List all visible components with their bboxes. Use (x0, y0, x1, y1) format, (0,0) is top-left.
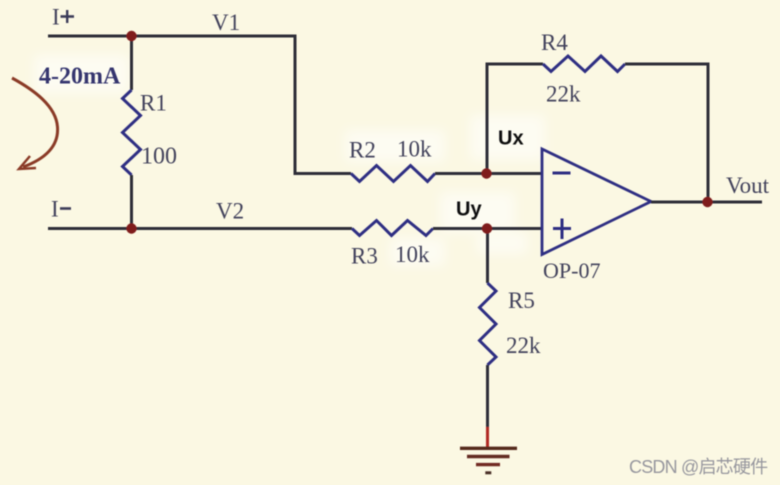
resistor R2 zigzag (351, 166, 435, 182)
node Ux vertical wire up to R4 (486, 64, 489, 174)
svg-text:22k: 22k (506, 333, 541, 358)
svg-text:Ux: Ux (498, 128, 524, 150)
wire op-amp output (651, 201, 762, 204)
svg-text:100: 100 (141, 144, 177, 170)
svg-text:22k: 22k (546, 82, 581, 107)
wire V1 vertical drop (294, 35, 297, 174)
svg-text:Uy: Uy (456, 199, 482, 221)
svg-text:I: I (52, 5, 60, 30)
svg-text:I: I (51, 197, 59, 222)
wire R2 to node Ux (435, 172, 542, 175)
resistor R5 zigzag (480, 283, 497, 365)
current direction arrow (12, 78, 58, 169)
svg-text:R1: R1 (140, 91, 167, 116)
junction node Uy (482, 223, 492, 233)
resistor R3 zigzag (352, 221, 433, 236)
svg-text:R2: R2 (349, 138, 376, 163)
wire V1 bottom to R2 (294, 172, 352, 175)
op-amp U1 OP-07 (542, 149, 651, 255)
wire R3 to op-amp plus input (433, 227, 542, 230)
junction I+ / R1 (126, 31, 136, 41)
white halo patches (jpeg artifacts) (34, 55, 545, 266)
ground (460, 448, 517, 474)
wire top I+ horizontal (48, 35, 295, 38)
wire R5 bottom (486, 365, 489, 430)
wire bottom I- horizontal (48, 227, 352, 230)
svg-text:10k: 10k (395, 242, 430, 267)
svg-text:R3: R3 (351, 244, 378, 269)
node Uy vertical wire down to R5 (486, 229, 489, 284)
wire R4 left (486, 63, 544, 66)
resistor R1 vertical (123, 35, 141, 231)
svg-text:10k: 10k (397, 137, 432, 162)
junction Vout (702, 197, 712, 207)
svg-text:V1: V1 (212, 10, 240, 35)
wire R4 right (625, 63, 708, 66)
svg-text:Vout: Vout (726, 173, 770, 198)
junction I- / R1 (126, 223, 136, 233)
svg-text:OP-07: OP-07 (543, 258, 600, 283)
wire R5 to ground (red segment) (486, 427, 489, 448)
svg-text:R5: R5 (508, 288, 535, 313)
svg-text:CSDN @启芯硬件: CSDN @启芯硬件 (629, 457, 768, 477)
junction node Ux (481, 168, 491, 178)
svg-text:V2: V2 (216, 199, 244, 224)
svg-text:R4: R4 (541, 30, 568, 55)
resistor R4 zigzag (543, 56, 625, 72)
wire R4 right vertical down to Vout node (707, 63, 710, 203)
svg-text:4-20mA: 4-20mA (39, 64, 121, 90)
